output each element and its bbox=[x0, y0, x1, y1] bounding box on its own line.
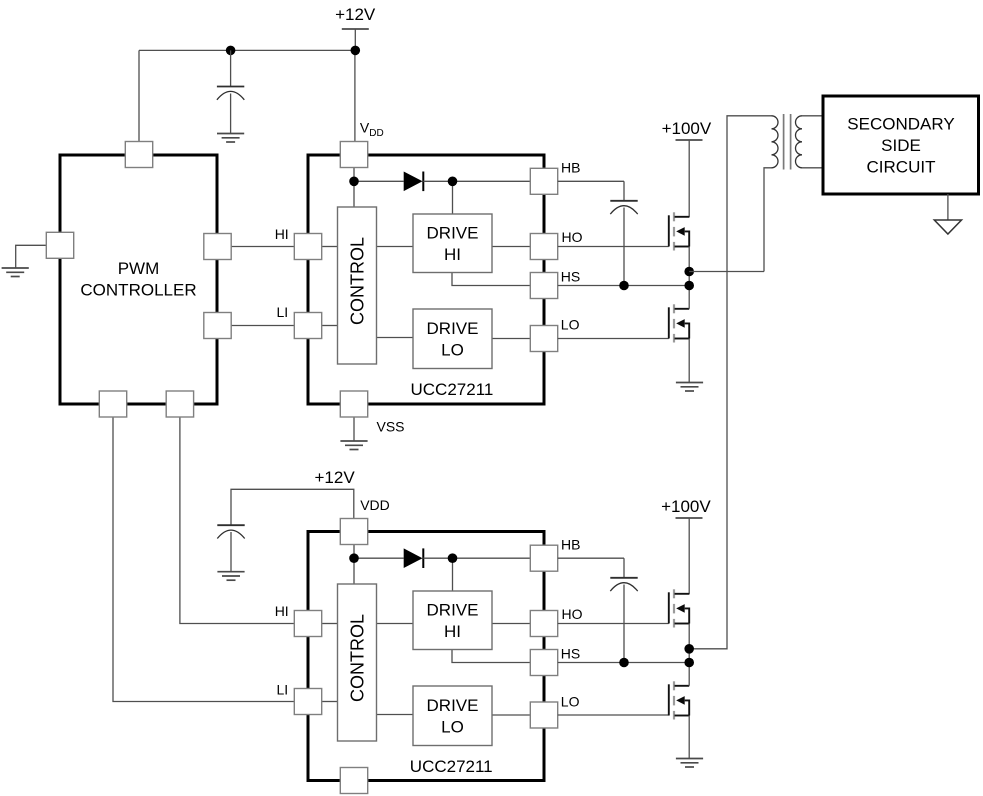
wire U1 LI pin to CONTROL bbox=[322, 325, 338, 327]
wire HB node down to DRIVE HI bbox=[452, 558, 454, 591]
svg-text:SIDE: SIDE bbox=[881, 136, 921, 155]
wire HB node down to DRIVE HI bbox=[452, 181, 454, 214]
ground C1 ground bbox=[217, 134, 244, 143]
wire U2 DRIVE HI return to HS pin bbox=[452, 650, 531, 663]
wire U2 HI pin to CONTROL bbox=[322, 623, 338, 625]
wire D2 cathode to HB pin bbox=[423, 557, 531, 559]
wire PWM output to UCC2 LI bbox=[113, 417, 294, 702]
wire U2 HO to Q3 gate bbox=[558, 623, 669, 625]
svg-text:+100V: +100V bbox=[661, 497, 711, 516]
wire +12V feed to U2 VDD bbox=[231, 489, 354, 525]
junction U2 HB node bbox=[448, 553, 458, 563]
wire node A to T1 primary- bbox=[689, 271, 764, 273]
svg-text:LO: LO bbox=[561, 694, 580, 710]
wire rail down to U1 VDD pin bbox=[354, 50, 356, 141]
wire PWM output to UCC2 HI bbox=[180, 417, 294, 624]
wire PWM HI output to UCC1 HI bbox=[231, 246, 294, 248]
wire U1 HI pin to CONTROL bbox=[322, 246, 338, 248]
wire U2 LI pin to CONTROL bbox=[322, 701, 338, 703]
wire U1 HO to Q1 gate bbox=[558, 246, 669, 248]
wire +100V to Q3 drain bbox=[688, 518, 690, 594]
svg-text:HO: HO bbox=[562, 229, 583, 245]
pin U1 HI bbox=[294, 234, 321, 260]
wire secondary block to earth bbox=[947, 194, 949, 220]
pin U1 LO bbox=[530, 326, 557, 352]
svg-text:DRIVE: DRIVE bbox=[427, 601, 479, 620]
junction switch node A (HS) bbox=[684, 281, 694, 291]
ground C3 ground bbox=[217, 572, 244, 581]
wire U1 HB to C2 bbox=[558, 180, 624, 182]
wire D1 cathode to HB pin bbox=[423, 180, 531, 182]
junction switch node B (HS) bbox=[684, 658, 694, 668]
wire into C2 bbox=[623, 181, 625, 200]
pin U1 VDD bbox=[340, 142, 367, 168]
pin PWM out B1 (bottom) bbox=[99, 391, 126, 417]
pin U1 HB bbox=[530, 168, 557, 194]
gate driver U1 UCC27211 (top) bbox=[308, 155, 544, 404]
pin U1 HS bbox=[530, 273, 557, 299]
junction switch node B (to T1) bbox=[684, 644, 694, 654]
junction U2 VDD node bbox=[349, 553, 359, 563]
svg-text:UCC27211: UCC27211 bbox=[410, 757, 493, 776]
wire U2 HS to switch node bbox=[558, 662, 689, 664]
svg-text:VDD: VDD bbox=[360, 497, 390, 513]
transistor Q4 (lower low-side) (N-MOSFET) bbox=[669, 681, 689, 719]
gate driver U2 UCC27211 (bottom) bbox=[308, 532, 544, 781]
pin PWM VCC (top) bbox=[125, 142, 152, 168]
power rail bar +12V top bbox=[342, 28, 369, 30]
svg-text:HI: HI bbox=[444, 245, 461, 264]
ground PWM ground bbox=[2, 268, 29, 277]
pin U1 VSS bbox=[340, 391, 367, 417]
wire U1 DRIVE HI to HO pin bbox=[492, 246, 531, 248]
wire C1 to ground bbox=[230, 94, 232, 134]
transformer T1 primary winding bbox=[772, 116, 779, 168]
wire U2 CONTROL to DRIVE HI bbox=[377, 623, 414, 625]
svg-text:HO: HO bbox=[562, 606, 583, 622]
svg-text:HB: HB bbox=[561, 537, 580, 553]
pin U1 LI bbox=[294, 313, 321, 339]
junction +12V rail at C1 bbox=[226, 46, 236, 56]
wire U1 VDD node to D1 anode bbox=[354, 180, 404, 182]
wire U1 DRIVE HI return to HS pin bbox=[452, 273, 531, 286]
transformer T1 secondary winding bbox=[796, 116, 802, 168]
wire up to T1 primary bottom bbox=[764, 168, 772, 272]
capacitor C3 (12V bypass, lower) bbox=[217, 525, 244, 538]
junction C4/HS junction bbox=[619, 658, 629, 668]
pin U2 HS bbox=[530, 650, 557, 676]
wire Q1 source to Q2 drain bbox=[688, 247, 690, 309]
wire U2 CONTROL to DRIVE LO bbox=[377, 714, 414, 716]
wire T1 secondary bottom to load bbox=[802, 167, 823, 169]
capacitor C2 (U1 bootstrap) bbox=[610, 201, 637, 214]
svg-text:HI: HI bbox=[444, 622, 461, 641]
svg-text:LI: LI bbox=[277, 682, 289, 698]
svg-text:LO: LO bbox=[441, 341, 464, 360]
U1 CONTROL block bbox=[338, 207, 377, 364]
wire rail to C1 bbox=[230, 50, 232, 86]
U2 DRIVE LO block bbox=[413, 686, 492, 746]
wire +100V to Q1 drain bbox=[688, 140, 690, 217]
junction +12V rail right bbox=[351, 46, 361, 56]
svg-text:PWM: PWM bbox=[118, 259, 160, 278]
secondary side circuit block bbox=[823, 96, 979, 194]
wire Q2 source to ground bbox=[688, 339, 690, 383]
wire +12V horizontal rail bbox=[139, 49, 355, 51]
svg-text:+12V: +12V bbox=[315, 468, 356, 487]
svg-text:CONTROL: CONTROL bbox=[348, 614, 368, 702]
wire U1 HS to switch node bbox=[558, 285, 689, 287]
wire Q3 source to Q4 drain bbox=[688, 624, 690, 686]
wire U1 VSS to ground bbox=[353, 417, 355, 441]
wire Q4 source to ground bbox=[688, 716, 690, 759]
svg-text:LO: LO bbox=[561, 317, 580, 333]
svg-text:UCC27211: UCC27211 bbox=[411, 380, 494, 399]
svg-text:LI: LI bbox=[277, 304, 289, 320]
ground Q2 source ground bbox=[676, 383, 703, 392]
wire U2 VDD node to D2 anode bbox=[354, 557, 404, 559]
PWM controller block bbox=[60, 155, 217, 404]
svg-text:HI: HI bbox=[275, 603, 289, 619]
svg-text:VSS: VSS bbox=[377, 419, 405, 435]
svg-text:+12V: +12V bbox=[335, 5, 376, 24]
diode D2 (U2 bootstrap) bbox=[404, 548, 424, 568]
svg-text:CONTROL: CONTROL bbox=[348, 237, 368, 325]
wire U2 LO to Q4 gate bbox=[558, 714, 669, 716]
pin U2 VDD bbox=[340, 519, 367, 545]
wire rail down to PWM top pin bbox=[138, 50, 140, 141]
svg-text:HI: HI bbox=[275, 226, 289, 242]
wire node B riser to T1 primary top bbox=[689, 116, 771, 649]
junction U1 HB node bbox=[448, 177, 458, 187]
U1 DRIVE HI block bbox=[413, 214, 492, 273]
capacitor C4 (U2 bootstrap) bbox=[610, 578, 637, 591]
wire U2 DRIVE LO to LO pin bbox=[492, 714, 531, 716]
pin U2 HB bbox=[530, 545, 557, 571]
transformer T1 core bbox=[784, 114, 791, 170]
pin PWM GND (left) bbox=[46, 232, 73, 258]
svg-text:DRIVE: DRIVE bbox=[427, 224, 479, 243]
svg-text:HS: HS bbox=[561, 269, 580, 285]
ground U1 VSS ground bbox=[340, 441, 367, 450]
pin U2 LI bbox=[294, 689, 321, 715]
svg-text:CONTROLLER: CONTROLLER bbox=[80, 281, 196, 300]
transistor Q3 (lower high-side) (N-MOSFET) bbox=[669, 589, 689, 627]
svg-text:HB: HB bbox=[561, 159, 580, 175]
pin PWM HI out bbox=[204, 234, 231, 260]
diode D1 (U1 bootstrap) bbox=[404, 172, 424, 192]
wire U1 LO to Q2 gate bbox=[558, 338, 669, 340]
wire PWM left pin to ground bbox=[16, 245, 47, 268]
power rail bar +100V top bbox=[676, 139, 703, 141]
svg-text:+100V: +100V bbox=[662, 119, 712, 138]
svg-text:LO: LO bbox=[441, 718, 464, 737]
transistor Q1 (top high-side) (N-MOSFET) bbox=[669, 212, 689, 250]
earth ground (secondary) bbox=[934, 220, 961, 234]
wire T1 secondary top to load bbox=[802, 115, 823, 117]
svg-text:DRIVE: DRIVE bbox=[427, 319, 479, 338]
pin U1 HO bbox=[530, 234, 557, 260]
svg-text:DRIVE: DRIVE bbox=[427, 696, 479, 715]
junction U1 VDD node bbox=[349, 177, 359, 187]
wire U1 CONTROL to DRIVE LO bbox=[377, 337, 414, 339]
wire +12V bar to node bbox=[354, 29, 356, 50]
wire U2 DRIVE HI to HO pin bbox=[492, 623, 531, 625]
svg-text:SECONDARY: SECONDARY bbox=[847, 115, 954, 134]
power rail bar +100V lower bbox=[676, 517, 703, 519]
svg-text:CIRCUIT: CIRCUIT bbox=[867, 158, 936, 177]
pin U2 HO bbox=[530, 611, 557, 637]
svg-text:HS: HS bbox=[561, 646, 580, 662]
wire U1 DRIVE LO to LO pin bbox=[492, 338, 531, 340]
pin U2 LO bbox=[530, 702, 557, 728]
wire into C4 bbox=[623, 558, 625, 578]
ground Q4 source ground bbox=[676, 759, 703, 768]
wire U2 HB to C4 bbox=[558, 557, 624, 559]
wire C3 to ground bbox=[230, 532, 232, 572]
pin U2 VSS bbox=[340, 768, 367, 794]
U2 DRIVE HI block bbox=[413, 591, 492, 650]
wire C2 to HS net bbox=[623, 208, 625, 286]
junction switch node A (to T1) bbox=[684, 267, 694, 277]
wire U1 VDD to CONTROL bbox=[353, 168, 355, 208]
transistor Q2 (top low-side) (N-MOSFET) bbox=[669, 304, 689, 342]
junction C2/HS junction bbox=[619, 281, 629, 291]
capacitor C1 (12V bypass, top) bbox=[217, 87, 244, 100]
pin U2 HI bbox=[294, 611, 321, 637]
pin PWM LI out bbox=[204, 313, 231, 339]
wire C4 to HS net bbox=[623, 585, 625, 663]
pin PWM out B2 (bottom) bbox=[166, 391, 193, 417]
U1 DRIVE LO block bbox=[413, 309, 492, 369]
wire PWM LI output to UCC1 LI bbox=[231, 325, 294, 327]
wire U1 CONTROL to DRIVE HI bbox=[377, 246, 414, 248]
wire U2 VDD to CONTROL bbox=[353, 545, 355, 585]
U2 CONTROL block bbox=[338, 584, 377, 741]
